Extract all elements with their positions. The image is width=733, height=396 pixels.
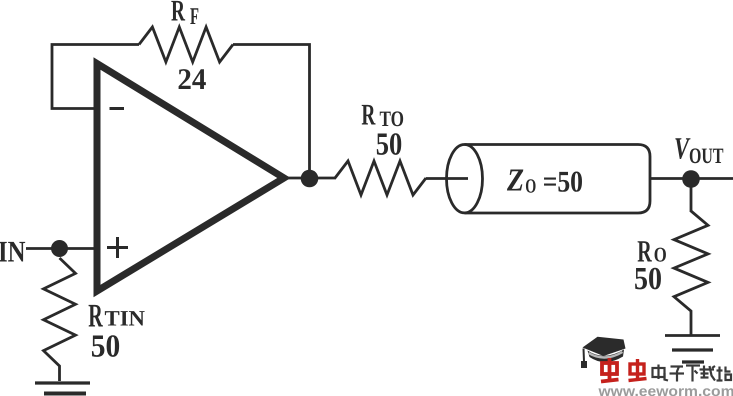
watermark 虫虫 (red) [601,358,647,382]
coax left ellipse [447,145,483,213]
char 子 [671,365,684,367]
plus sign (non-inverting input) [107,246,128,249]
svg-text:Z: Z [506,161,524,197]
coax cable Z0 body [465,145,651,214]
wire: VOUT down to RO [690,186,693,212]
watermark 电子下载站 (dark) [653,365,732,382]
ground (input side) [35,381,90,384]
svg-text:F: F [190,4,199,30]
svg-text:50: 50 [634,260,662,296]
watermark graduation cap icon [581,337,626,368]
char 下 [686,364,700,366]
svg-text:IN: IN [0,236,26,269]
op-amp U1 [97,64,284,292]
wire: RF right to output node [233,45,310,177]
svg-text:50: 50 [91,328,121,364]
svg-text:R: R [171,0,185,28]
resistor RTO [335,161,426,195]
svg-text:=50: =50 [543,166,583,199]
wire: coax to VOUT node [650,177,733,180]
resistor RF [139,27,233,62]
node: input junction dot [51,240,68,257]
node: output junction dot [301,170,319,188]
char 站 [718,367,720,381]
wire: inverting input to feedback left branch [52,45,139,109]
wire: op-amp output [282,177,336,180]
wire: IN to non-inverting input [26,247,97,250]
node: VOUT junction dot [682,170,700,188]
char 电 [653,368,665,377]
svg-text:50: 50 [376,126,403,162]
resistor RO [674,211,708,335]
svg-text:O: O [525,175,536,197]
svg-text:OUT: OUT [689,143,724,168]
resistor RTIN [44,258,76,381]
char 载 [700,368,715,370]
ground (output side) [665,334,720,337]
svg-text:24: 24 [177,63,206,96]
wire: RTO to coax [426,177,468,180]
minus sign (inverting input) [110,107,125,110]
svg-text:R: R [361,99,375,132]
svg-text:www.eeworm.com: www.eeworm.com [597,384,733,396]
